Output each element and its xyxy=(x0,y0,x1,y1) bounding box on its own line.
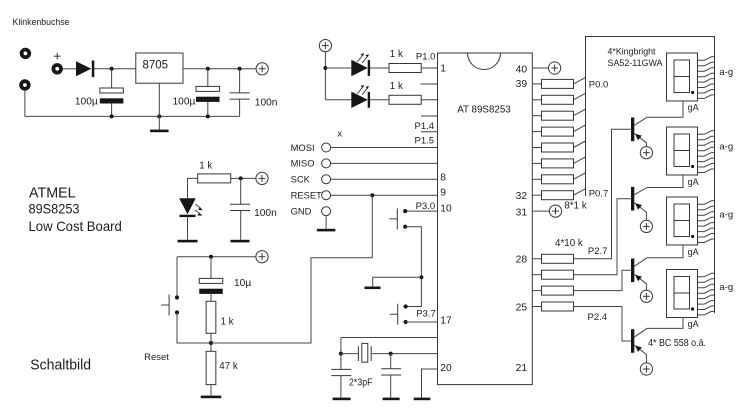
svg-text:2*3pF: 2*3pF xyxy=(349,378,373,389)
wire regulator gnd xyxy=(158,83,160,129)
svg-text:100µ: 100µ xyxy=(173,96,196,107)
supply terminal +5V output xyxy=(256,63,268,75)
svg-text:31: 31 xyxy=(516,207,528,218)
wire rail to C5 xyxy=(210,257,212,279)
wire pin 32 to resistor xyxy=(532,194,541,196)
svg-text:gA: gA xyxy=(688,319,699,329)
wire pin 25 to resistor xyxy=(532,306,541,308)
capacitor C5 10µ xyxy=(199,278,223,294)
wire LED D4 to R1 xyxy=(369,67,389,69)
wire resistor R11 to display bus xyxy=(574,157,586,164)
junction buttons ground xyxy=(419,275,423,279)
supply terminal pin 31 xyxy=(549,205,561,217)
svg-text:x: x xyxy=(337,128,342,139)
svg-text:1: 1 xyxy=(440,64,446,75)
svg-text:25: 25 xyxy=(516,303,528,314)
ground power section xyxy=(150,130,169,133)
stub pin 4 xyxy=(421,115,438,117)
stub pin 2 xyxy=(421,83,438,85)
capacitor C6 3pF xyxy=(331,369,351,375)
ground ISP xyxy=(317,229,336,232)
ground buttons xyxy=(365,287,381,290)
display DS4 7-segment xyxy=(667,270,698,318)
transistor Q3 BC558 xyxy=(631,245,683,291)
resistor R3 1k xyxy=(198,174,231,183)
svg-text:P1.0: P1.0 xyxy=(416,52,436,63)
svg-text:9: 9 xyxy=(440,188,446,199)
wire R4 to R5 xyxy=(210,333,212,351)
wire to C4 xyxy=(240,178,242,204)
svg-text:Reset: Reset xyxy=(144,352,169,363)
wire resistor R7 to display bus xyxy=(574,93,586,100)
resistor R15 10k (P2.6) xyxy=(542,270,574,279)
ground rail xyxy=(25,115,240,117)
resistor R7 1k (P0.1) xyxy=(542,95,574,104)
svg-text:28: 28 xyxy=(516,255,528,266)
svg-text:21: 21 xyxy=(516,363,528,374)
wire down to crystal xyxy=(340,338,342,354)
junction RESET net xyxy=(370,193,374,197)
LED D3 power indicator (pointing down) xyxy=(179,198,203,217)
jack connector pin sleeve xyxy=(19,79,30,90)
wire rail to switch xyxy=(176,257,178,298)
ground pin 20 xyxy=(414,398,431,401)
svg-text:gA: gA xyxy=(688,102,699,112)
svg-text:P3.7: P3.7 xyxy=(416,309,436,320)
resistor R14 10k (P2.7) xyxy=(542,254,574,263)
pad RESET xyxy=(322,191,331,200)
resistor R6 1k (P0.0) xyxy=(542,79,574,88)
wire button S2 to button S3 xyxy=(405,227,421,307)
wire pin 34 to resistor xyxy=(532,162,541,164)
wire button S3 to pin 17 xyxy=(406,321,438,323)
wire segment fan display DS1 xyxy=(698,57,715,99)
crystal Q5 xyxy=(358,343,371,362)
junction rail C1 xyxy=(110,114,114,118)
svg-text:39: 39 xyxy=(516,79,528,90)
wire to crystal xyxy=(341,353,358,355)
junction crystal left xyxy=(339,352,343,356)
svg-text:P1.5: P1.5 xyxy=(415,136,435,147)
wire to C1 xyxy=(111,69,113,88)
wire C3 to ground rail xyxy=(239,99,241,116)
wire to C6 xyxy=(340,354,342,370)
wire C5 to R4 xyxy=(210,294,212,301)
junction reset rail xyxy=(209,255,213,259)
svg-text:89S8253: 89S8253 xyxy=(29,202,80,217)
wire segment fan display DS2 xyxy=(698,131,715,173)
wire RESET to IC xyxy=(331,194,438,196)
wire pin 35 to resistor xyxy=(532,147,541,149)
wire P2.6 to Q2 base xyxy=(574,199,632,275)
svg-text:MISO: MISO xyxy=(291,158,315,169)
svg-text:a-g: a-g xyxy=(719,142,733,153)
stub pin 5 xyxy=(421,131,438,133)
svg-text:10: 10 xyxy=(440,204,452,215)
resistor R10 1k (P0.4) xyxy=(542,143,574,152)
wire C4 to ground xyxy=(240,211,242,240)
svg-text:AT 89S8253: AT 89S8253 xyxy=(457,104,511,115)
wire pin 31 to supply xyxy=(532,210,549,212)
capacitor C2 100µ xyxy=(196,86,220,101)
wire C7 to ground xyxy=(390,375,392,398)
wire segment fan display DS3 xyxy=(698,201,715,243)
pad GND xyxy=(322,207,331,216)
junction rail C2 xyxy=(206,114,210,118)
pad MISO xyxy=(322,159,331,168)
wire P2.5 to Q3 base xyxy=(574,270,632,290)
junction crystal right xyxy=(389,352,393,356)
resistor R16 10k (P2.5) xyxy=(542,286,574,295)
wire to C3 xyxy=(239,69,241,93)
supply terminal Q2 emitter xyxy=(640,220,652,232)
resistor R9 1k (P0.3) xyxy=(542,127,574,136)
svg-text:4*10 k: 4*10 k xyxy=(555,238,583,249)
resistor R17 10k (P2.4) xyxy=(542,302,574,311)
wire regulator output xyxy=(183,68,256,70)
wire pin 26 to resistor xyxy=(532,290,541,292)
svg-text:P2.7: P2.7 xyxy=(588,246,608,257)
junction C3 xyxy=(238,67,242,71)
svg-text:P3.0: P3.0 xyxy=(416,201,436,212)
wire resistor R12 to display bus xyxy=(574,173,586,180)
wire R2 to pin 3 xyxy=(421,99,437,101)
push button Reset switch xyxy=(161,295,179,316)
svg-text:100n: 100n xyxy=(254,208,277,219)
svg-text:P0.0: P0.0 xyxy=(589,80,609,91)
transistor Q1 BC558 xyxy=(631,101,683,147)
LED D4 xyxy=(351,53,370,76)
wire MISO to IC xyxy=(331,162,438,164)
resistor R2 1k xyxy=(389,95,421,104)
wire R3 to supply xyxy=(231,177,257,179)
op-amp U1 AT89S8253 microcontroller body xyxy=(438,53,533,385)
svg-text:1 k: 1 k xyxy=(390,49,403,60)
svg-text:a-g: a-g xyxy=(719,210,733,221)
junction C2 xyxy=(206,67,210,71)
wire C6 to ground xyxy=(340,376,342,398)
wire XTAL2 pin 18 xyxy=(341,337,438,339)
transistor Q4 BC558 xyxy=(631,318,683,364)
svg-text:17: 17 xyxy=(440,316,452,327)
svg-text:MOSI: MOSI xyxy=(291,142,315,153)
jack connector pin tip (unconnected) xyxy=(20,48,31,59)
resistor R8 1k (P0.2) xyxy=(542,111,574,120)
LED D5 xyxy=(351,85,370,108)
junction rail regulator gnd xyxy=(157,114,161,118)
svg-text:RESET: RESET xyxy=(291,190,323,201)
supply terminal pin 40 xyxy=(549,62,561,74)
svg-text:P2.4: P2.4 xyxy=(588,312,608,323)
wire R5 to ground xyxy=(210,385,212,396)
ground power LED xyxy=(178,240,198,243)
supply terminal LEDs xyxy=(319,40,331,52)
wire P2.7 to Q1 base xyxy=(574,129,632,258)
junction LED1 xyxy=(323,66,327,70)
wire resistor R9 to display bus xyxy=(574,125,586,132)
svg-text:4* BC 558 o.ä.: 4* BC 558 o.ä. xyxy=(648,338,706,349)
supply terminal Q1 emitter xyxy=(640,147,652,159)
svg-text:ATMEL: ATMEL xyxy=(29,186,76,202)
svg-text:GND: GND xyxy=(291,206,312,217)
pad SCK xyxy=(322,175,331,184)
svg-text:P1.4: P1.4 xyxy=(415,121,435,132)
wire pin 27 to resistor xyxy=(532,274,541,276)
wire pin 20 to ground xyxy=(422,369,438,398)
svg-text:1 k: 1 k xyxy=(390,81,403,92)
wire pin 40 to supply xyxy=(532,67,549,69)
wire pin 37 to resistor xyxy=(532,115,541,117)
junction input cap xyxy=(110,67,114,71)
wire pin10 to button xyxy=(405,210,437,212)
supply terminal reset xyxy=(256,251,268,263)
wire C2 to ground rail xyxy=(207,102,209,117)
svg-text:gA: gA xyxy=(688,177,699,187)
wire resistor R10 to display bus xyxy=(574,141,586,148)
ground C6 xyxy=(333,398,351,401)
svg-text:8*1 k: 8*1 k xyxy=(564,200,586,211)
wire reset top rail xyxy=(177,256,256,258)
wire R1 to pin 1 xyxy=(421,67,437,69)
junction C4 xyxy=(239,176,243,180)
svg-text:Schaltbild: Schaltbild xyxy=(30,358,91,374)
svg-text:8705: 8705 xyxy=(143,59,169,71)
pad MOSI xyxy=(322,143,331,152)
ground C7 xyxy=(383,398,400,401)
svg-text:SA52-11GWA: SA52-11GWA xyxy=(608,58,664,68)
svg-text:20: 20 xyxy=(440,363,452,374)
wire switch to R4 bottom xyxy=(177,313,211,344)
resistor R4 1k xyxy=(206,301,216,333)
wire XTAL1 pin 19 xyxy=(391,353,438,355)
resistor R13 1k (P0.7) xyxy=(542,191,574,200)
svg-text:47 k: 47 k xyxy=(219,361,238,372)
svg-text:40: 40 xyxy=(516,65,528,76)
wire crystal right xyxy=(372,353,391,355)
svg-text:Klinkenbuchse: Klinkenbuchse xyxy=(13,17,70,28)
resistor R11 1k (P0.5) xyxy=(542,159,574,168)
ground reset divider xyxy=(201,396,222,399)
svg-text:1 k: 1 k xyxy=(199,161,212,172)
svg-text:a-g: a-g xyxy=(719,282,733,293)
wire LED cathode to ground xyxy=(187,216,189,239)
transistor Q2 BC558 xyxy=(631,175,683,221)
svg-text:100µ: 100µ xyxy=(75,97,98,108)
wire to LED D5 xyxy=(325,99,351,101)
display DS2 7-segment xyxy=(667,127,698,175)
jack connector pin plus xyxy=(52,53,63,75)
wire junction to ground xyxy=(373,277,422,286)
svg-text:32: 32 xyxy=(516,191,528,202)
wire R3 to LED anode xyxy=(188,178,198,198)
svg-text:gA: gA xyxy=(688,247,699,257)
supply terminal LED branch xyxy=(256,172,268,184)
resistor R1 1k xyxy=(389,64,421,73)
wire reset node to RESET pin xyxy=(211,195,372,343)
supply terminal Q3 emitter xyxy=(640,290,652,302)
display module outline box xyxy=(586,37,715,314)
wire resistor R13 to display bus xyxy=(574,189,586,196)
wire segment fan display DS4 xyxy=(698,273,715,315)
diode D1 xyxy=(76,61,94,78)
wire to C7 xyxy=(390,354,392,369)
wire resistor R6 to display bus xyxy=(574,77,586,84)
capacitor C1 100µ xyxy=(100,88,124,104)
svg-text:100n: 100n xyxy=(255,98,278,109)
wire pin 28 to resistor xyxy=(532,258,541,260)
svg-text:8: 8 xyxy=(440,172,446,183)
capacitor C7 3pF xyxy=(381,369,401,375)
display DS3 7-segment xyxy=(667,197,698,245)
svg-text:a-g: a-g xyxy=(719,67,733,78)
capacitor C4 100n xyxy=(230,204,250,210)
wire to LED D4 xyxy=(325,67,351,69)
svg-text:4*Kingbright: 4*Kingbright xyxy=(608,47,656,58)
svg-text:SCK: SCK xyxy=(291,174,311,185)
resistor R12 1k (P0.6) xyxy=(542,175,574,184)
push button S3 P3.7 xyxy=(390,304,408,325)
svg-text:1 k: 1 k xyxy=(221,317,234,328)
wire LED D5 to R2 xyxy=(369,99,389,101)
ground C4 xyxy=(231,240,250,243)
display DS1 7-segment xyxy=(667,53,698,101)
capacitor C3 100n xyxy=(230,93,250,99)
svg-text:10µ: 10µ xyxy=(234,278,251,289)
wire P2.4 to Q4 base xyxy=(574,307,632,342)
regulator U2 8705 xyxy=(136,53,183,83)
wire SCK to IC xyxy=(331,178,438,180)
wire to C2 xyxy=(207,69,209,87)
wire pin 39 to resistor xyxy=(532,83,541,85)
svg-text:Low Cost Board: Low Cost Board xyxy=(29,219,122,234)
junction reset node xyxy=(209,341,213,345)
wire pin 33 to resistor xyxy=(532,178,541,180)
wire LED supply down xyxy=(324,51,326,99)
wire jack to diode xyxy=(63,68,76,70)
push button S2 P3.0 xyxy=(389,208,407,229)
resistor R5 47k xyxy=(206,351,216,384)
supply terminal Q4 emitter xyxy=(640,363,652,375)
wire pin 38 to resistor xyxy=(532,99,541,101)
wire MOSI to IC xyxy=(331,147,438,149)
wire GND pad down xyxy=(325,216,327,229)
wire diode to regulator xyxy=(94,68,136,70)
wire resistor R8 to display bus xyxy=(574,109,586,116)
wire C1 to ground rail xyxy=(111,104,113,117)
wire pin 36 to resistor xyxy=(532,131,541,133)
wire sleeve down xyxy=(24,91,26,117)
svg-text:P0.7: P0.7 xyxy=(589,189,609,200)
